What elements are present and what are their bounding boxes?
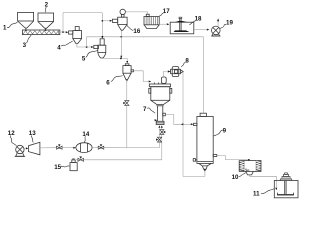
label 18	[189, 16, 202, 25]
stirred tank 11	[274, 173, 298, 198]
label 2	[45, 1, 49, 12]
wire pump 8 discharge down line	[182, 72, 184, 177]
node hopper2-conveyor junction	[45, 29, 47, 31]
column 9	[197, 113, 213, 169]
svg-text:7: 7	[143, 106, 147, 113]
wire header down to column 9 top	[202, 37, 204, 113]
wire cyclone 4 dust outlet	[77, 44, 92, 47]
wire blower 14 to valve	[92, 147, 98, 149]
wire valve to recycle gas line	[126, 106, 128, 148]
valve after bottle 15	[75, 159, 78, 161]
wire branch to column 9 feed nozzle	[183, 123, 191, 125]
node cyclone5 line junction	[120, 58, 122, 60]
valve after blower 14	[98, 146, 104, 149]
gas bottle 15	[70, 159, 77, 171]
column 9 overhead nozzle	[213, 155, 217, 157]
label 11	[253, 189, 274, 198]
label 6	[106, 76, 123, 87]
blower 19	[211, 26, 220, 36]
cyclone 5	[94, 39, 106, 58]
cyclone 6	[123, 64, 134, 80]
wire tank 18 to blower 19	[193, 29, 207, 31]
wire branch to cyclone 16 inlet	[102, 20, 109, 22]
svg-text:9: 9	[223, 127, 227, 134]
svg-text:13: 13	[29, 130, 36, 137]
label 15	[54, 164, 70, 171]
cyclone 16	[112, 9, 127, 30]
wire compressor 13 to valve	[40, 147, 57, 149]
svg-text:15: 15	[54, 164, 61, 171]
wire riser to main header	[86, 37, 88, 47]
nozzle arrow on draft tube	[155, 119, 158, 121]
svg-text:11: 11	[253, 190, 260, 197]
node header x cyclone16 dust	[120, 36, 122, 38]
arrow on circulation to reactor	[181, 123, 184, 125]
label 16	[127, 25, 141, 35]
wire main gas header	[87, 36, 204, 38]
cooler 17	[144, 14, 159, 28]
pump 8	[171, 67, 184, 77]
label 19	[220, 20, 234, 29]
wire cyclone 6 gas outlet to reactor 7	[134, 71, 149, 82]
node header x cyclone5 feed	[102, 36, 104, 38]
label 17	[159, 8, 170, 17]
label 14	[82, 131, 89, 143]
wire conveyor riser to top line	[63, 12, 102, 36]
label 7	[143, 106, 155, 113]
svg-text:4: 4	[57, 44, 61, 51]
svg-text:1: 1	[3, 24, 7, 31]
svg-text:3: 3	[23, 42, 27, 49]
node top line branch to cyclone 16	[102, 20, 104, 22]
wire cyclone 5 dust line to cyclone 6	[102, 58, 127, 61]
label 4	[57, 41, 72, 51]
wire cyclone 16 vortex to unit 17	[125, 12, 147, 14]
svg-text:10: 10	[232, 174, 239, 181]
wire fan 12 to compressor 13	[24, 147, 26, 149]
label 5	[82, 50, 98, 62]
wire column 9 overhead to cooler 10	[217, 156, 249, 160]
wire cooler 10 to tank 11	[250, 175, 277, 188]
wire column 9 bottoms	[204, 170, 206, 172]
wire reactor vapor to pump 8 suction	[163, 72, 167, 78]
wire valve to blower 14	[62, 147, 73, 149]
svg-text:14: 14	[82, 131, 89, 138]
svg-text:19: 19	[226, 20, 233, 27]
wire 17 to tank 18	[159, 23, 166, 25]
label 3	[23, 35, 32, 49]
svg-text:6: 6	[106, 80, 110, 87]
roots blower 14	[76, 143, 92, 153]
cyclone 4	[69, 27, 82, 44]
svg-text:5: 5	[82, 55, 86, 62]
svg-text:12: 12	[8, 130, 15, 137]
reactor 7	[149, 77, 172, 125]
fan 12	[15, 145, 25, 156]
compressor 13	[29, 142, 40, 155]
arrows into reactor bottom	[158, 125, 160, 127]
label 1	[3, 22, 17, 31]
level gauge on column 9	[193, 159, 197, 162]
screw conveyor 3	[22, 30, 59, 35]
valve on feed line	[57, 146, 63, 149]
arrow into cyclone 5 vortex	[101, 36, 103, 38]
wire right riser top	[161, 128, 163, 129]
wire blower 19 discharge	[217, 21, 219, 28]
label 12	[8, 130, 17, 146]
valve under cyclone 6	[125, 101, 129, 106]
wire cyclone 6 dust drop	[126, 80, 128, 82]
wire left riser to tube flange	[159, 128, 161, 137]
label 9	[214, 127, 227, 136]
label 8	[181, 58, 189, 68]
wire cyclone 16 dust drop	[120, 30, 122, 56]
svg-text:2: 2	[45, 1, 49, 8]
reactor side nozzle to circulation line	[163, 113, 166, 116]
svg-text:18: 18	[195, 16, 202, 23]
wire bottle line to riser	[84, 135, 162, 160]
svg-text:8: 8	[185, 58, 189, 65]
valve on left riser	[157, 137, 161, 142]
cooler 10	[239, 161, 261, 175]
wire feed line to reactor riser	[104, 142, 160, 147]
hopper 1	[18, 12, 34, 29]
hopper 2	[38, 13, 54, 30]
node hopper1-conveyor junction	[25, 29, 27, 31]
label 13	[29, 130, 36, 143]
wire conveyor outlet to cyclone 4 inlet	[60, 31, 66, 33]
stirred tank 18	[170, 17, 194, 34]
label 10	[232, 173, 246, 182]
valve on right riser	[160, 130, 164, 135]
node dust line riser junction	[86, 46, 88, 48]
svg-text:16: 16	[133, 28, 140, 35]
svg-text:17: 17	[163, 8, 170, 15]
